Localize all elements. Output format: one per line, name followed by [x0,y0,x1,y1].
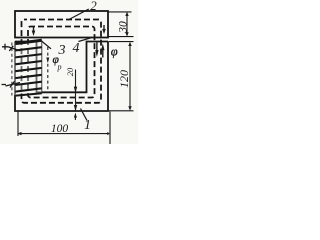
flux arrow right below gap down [95,43,98,58]
svg-text:20: 20 [65,67,75,76]
minus terminal and lead wire [2,81,21,87]
svg-text:100: 100 [51,123,69,135]
winding (part 3) turns on left leg [15,40,42,95]
callout 1 arrow below [74,113,77,120]
dimension 30 (bar thickness) [125,12,128,37]
winding left dashed outline [11,43,13,96]
leakage flux dashed line [47,47,49,92]
winding right outline [41,41,43,94]
svg-text:4: 4 [73,41,80,56]
extension line bottom left vertical [17,112,19,137]
flux arrow in left air gap (part 4) [32,27,36,37]
dimension 20 (bottom yoke thickness) [74,70,77,112]
extension line legs top right [109,41,134,43]
flux arrow right below gap up [101,43,104,57]
svg-text:30: 30 [118,21,130,34]
extension line top right [109,11,132,13]
dashed flux loop outer [22,20,102,103]
extension line bottom right vertical [109,112,111,145]
svg-text:φ: φ [111,45,118,59]
svg-text:p: p [57,63,62,72]
svg-text:1: 1 [84,118,91,133]
armature bar (part 2) [15,11,108,38]
dimension 100 (core width) [17,132,110,135]
flux arrow right above gap [102,25,106,34]
U-shaped core (part 1) outline [15,42,108,112]
svg-text:120: 120 [117,70,131,88]
extension line bar bottom right [109,36,134,38]
extension line bottom right [109,110,134,112]
dashed flux loop inner [28,27,95,98]
leakage flux arrowhead [46,58,49,64]
svg-text:2: 2 [90,0,97,13]
plus terminal and lead wire [2,44,20,51]
winding backing [13,42,42,95]
dimension 120 (core height) [128,42,131,111]
